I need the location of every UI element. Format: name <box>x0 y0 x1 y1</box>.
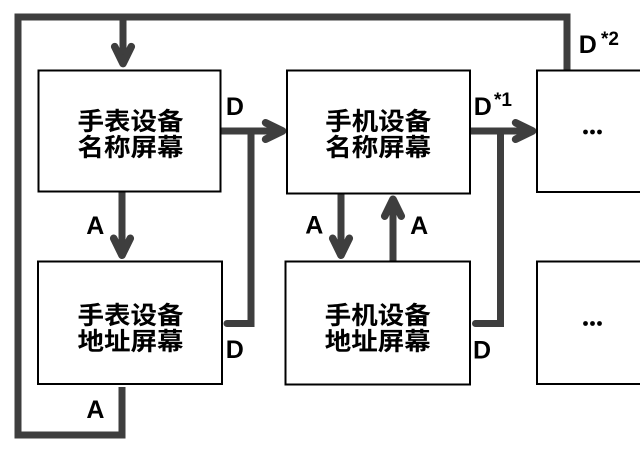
wire: A arrow box3 to box4 <box>338 194 345 249</box>
wire: entry arrow from top line into box1 <box>120 17 127 57</box>
svg-text:A: A <box>86 396 104 424</box>
svg-text:A: A <box>86 212 104 240</box>
text box4 line2 <box>325 329 430 353</box>
svg-text:D: D <box>579 31 597 59</box>
box1: watch device name screen <box>39 71 221 192</box>
text box6 ellipsis dots <box>583 321 602 326</box>
wire: A arrow box4 to box3 <box>390 205 397 262</box>
svg-text:D: D <box>474 93 492 121</box>
wire: D elbow from box4 right side up to the D*1 arrow <box>476 131 501 324</box>
svg-text:D: D <box>226 93 244 121</box>
svg-text:*2: *2 <box>601 29 619 50</box>
text box3 line2 <box>326 135 431 159</box>
svg-text:A: A <box>410 212 428 240</box>
wire: D*1 arrow box3 to box5 <box>470 128 529 135</box>
svg-text:D: D <box>226 336 244 364</box>
box3: phone device name screen <box>287 71 470 194</box>
wire: D elbow from box2 right side up to the D arrow <box>227 131 251 324</box>
text box4 line1 <box>326 303 431 327</box>
box5: further screen (partial, right edge) <box>537 71 640 193</box>
svg-text:D: D <box>473 337 491 365</box>
box2: watch device address screen <box>38 262 222 385</box>
text box2 line2 <box>78 329 183 353</box>
box6: further screen (partial, right edge) <box>537 262 640 385</box>
svg-text:A: A <box>305 212 323 240</box>
text box1 line1 <box>79 109 184 133</box>
box4: phone device address screen <box>286 262 471 385</box>
svg-text:*1: *1 <box>494 90 512 111</box>
text box2 line1 <box>79 303 184 327</box>
wire: D arrow box1 to box3 <box>221 128 280 135</box>
wire: A arrow box1 to box2 <box>119 192 126 249</box>
wire: big feedback loop from box2 bottom via left edge and top edge to box5 (D*2 path) <box>18 17 567 435</box>
text box1 line2 <box>78 135 183 159</box>
text box3 line1 <box>326 109 431 133</box>
text box5 ellipsis dots <box>583 130 602 135</box>
